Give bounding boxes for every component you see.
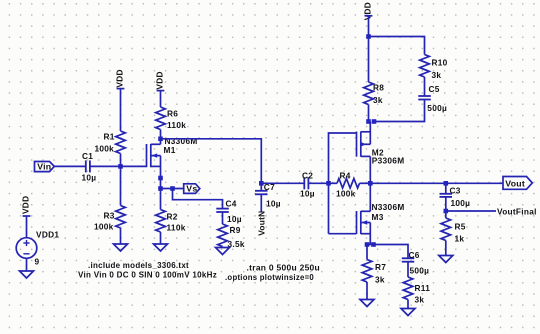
- ground at R9: [216, 248, 230, 255]
- wire node C to C4: [173, 189, 223, 209]
- svg-text:10µ: 10µ: [300, 188, 315, 198]
- resistor R3: [94, 206, 125, 232]
- ground at VDD1: [20, 271, 34, 278]
- svg-text:500µ: 500µ: [427, 103, 447, 113]
- svg-text:3k: 3k: [373, 95, 383, 105]
- node I junction: [444, 181, 449, 186]
- svg-text:R7: R7: [375, 262, 386, 272]
- node F junction: [368, 181, 373, 186]
- wire node J to R5: [445, 211, 447, 218]
- wire node Vs to R2: [160, 189, 162, 210]
- wire M1 source to node Vs: [160, 178, 162, 189]
- power flag VDD top: [362, 2, 372, 20]
- resistor R2: [156, 210, 186, 233]
- ground at R5: [439, 256, 453, 263]
- wire node A to M1 gate: [121, 165, 147, 167]
- M1 source pin dot: [158, 176, 163, 181]
- svg-text:Vin: Vin: [37, 162, 51, 172]
- wire VDD to node G: [368, 16, 370, 37]
- wire C1 to node A: [90, 165, 121, 167]
- svg-text:R3: R3: [104, 211, 115, 221]
- wire R9 to ground: [222, 247, 224, 248]
- capacitor C5: [418, 84, 447, 113]
- wire C3 to node J: [445, 197, 447, 211]
- svg-text:VoutN: VoutN: [257, 211, 267, 236]
- svg-text:100µ: 100µ: [451, 198, 471, 208]
- capacitor C1: [82, 151, 97, 182]
- wire C5 to M2 source node: [374, 100, 425, 122]
- node H junction pair: [366, 119, 376, 124]
- svg-text:C1: C1: [82, 151, 93, 161]
- svg-text:1k: 1k: [455, 233, 465, 243]
- wire R6 to drain node B: [160, 130, 162, 139]
- ground at R3: [114, 244, 128, 251]
- capacitor C7: [255, 182, 281, 209]
- svg-text:500µ: 500µ: [410, 265, 430, 275]
- resistor R5: [441, 218, 466, 243]
- wire node A to R3: [120, 166, 122, 205]
- wire node G to R8: [368, 37, 370, 83]
- svg-text:R4: R4: [340, 170, 351, 180]
- resistor R10: [420, 55, 448, 81]
- resistor R9: [218, 224, 245, 249]
- svg-text:3k: 3k: [415, 294, 425, 304]
- gate bus wire: [329, 133, 357, 234]
- wire C7 to VoutN label: [260, 194, 262, 211]
- svg-text:R6: R6: [167, 108, 178, 118]
- svg-text:R5: R5: [455, 221, 466, 231]
- svg-text:M1: M1: [164, 145, 176, 155]
- wire R5 to ground: [445, 241, 447, 256]
- svg-text:3k: 3k: [375, 275, 385, 285]
- svg-text:.options plotwinsize=0: .options plotwinsize=0: [225, 272, 314, 282]
- svg-text:Vout: Vout: [505, 178, 525, 188]
- node B junction: [158, 137, 163, 142]
- flag Vin: [35, 162, 55, 172]
- gate bus wire lower: [329, 233, 357, 235]
- svg-text:3k: 3k: [432, 70, 442, 80]
- svg-text:C4: C4: [226, 199, 237, 209]
- node K junction pair: [365, 242, 376, 247]
- wire VDD to R6: [160, 91, 162, 107]
- svg-text:Vs: Vs: [186, 184, 197, 194]
- svg-text:10µ: 10µ: [82, 173, 97, 183]
- resistor R7: [362, 260, 386, 285]
- transistor M3 N3306M: [357, 183, 405, 244]
- ground at R7: [360, 300, 374, 307]
- wire node K to C6: [367, 245, 408, 259]
- wire node I to flag Vout: [446, 182, 503, 184]
- capacitor C2: [300, 170, 315, 198]
- wire R10 to C5: [424, 77, 426, 96]
- svg-text:110k: 110k: [167, 223, 186, 233]
- wire R7 to ground: [366, 282, 368, 300]
- capacitor C3: [440, 183, 471, 208]
- wire R2 to ground: [160, 232, 162, 244]
- wire node G to R10: [369, 37, 425, 55]
- svg-text:100k: 100k: [94, 222, 114, 232]
- power flag VDD at VDD1: [20, 196, 30, 216]
- svg-text:R11: R11: [415, 283, 431, 293]
- power flag VDD at R6: [154, 71, 164, 90]
- wire node F to C3: [370, 182, 446, 184]
- wire Vin to C1: [54, 165, 86, 167]
- wire C6 to R11: [407, 262, 409, 277]
- wire R3 to ground: [120, 228, 122, 244]
- resistor R11: [403, 277, 430, 304]
- svg-text:R10: R10: [432, 58, 448, 68]
- transistor M1 N3306M: [147, 136, 198, 178]
- flag Vs: [184, 184, 200, 194]
- node C junction: [170, 186, 175, 191]
- svg-text:C3: C3: [450, 186, 461, 196]
- svg-text:110k: 110k: [167, 120, 186, 130]
- transistor M2 P3306M: [357, 122, 405, 184]
- svg-text:10µ: 10µ: [227, 214, 242, 224]
- flag Vout: [503, 177, 532, 190]
- node D junction: [259, 181, 264, 186]
- ground at R2: [154, 244, 168, 251]
- wire C4 to R9: [222, 212, 224, 224]
- svg-text:VoutFinal: VoutFinal: [497, 207, 537, 217]
- svg-text:P3306M: P3306M: [372, 156, 405, 166]
- svg-text:9: 9: [35, 257, 40, 267]
- svg-text:R8: R8: [373, 83, 384, 93]
- svg-text:R1: R1: [104, 132, 115, 142]
- wire node D to C2: [261, 182, 304, 184]
- node E junction: [326, 181, 331, 186]
- wire R1 to node A: [120, 154, 122, 167]
- svg-text:C2: C2: [302, 170, 313, 180]
- capacitor C6: [402, 250, 429, 275]
- wire node J to VoutFinal label: [446, 210, 496, 212]
- svg-text:C5: C5: [429, 84, 440, 94]
- svg-text:VDD: VDD: [114, 69, 124, 87]
- ground at R11: [401, 309, 415, 316]
- svg-text:.tran 0 500u 250u: .tran 0 500u 250u: [247, 263, 321, 273]
- node J junction: [444, 209, 449, 214]
- node A junction: [118, 164, 123, 169]
- wire node K to R7: [366, 245, 368, 260]
- svg-text:R9: R9: [230, 225, 241, 235]
- svg-text:Vin Vin 0 DC 0 SIN 0 100mV 10k: Vin Vin 0 DC 0 SIN 0 100mV 10kHz: [78, 270, 217, 280]
- svg-text:VDD: VDD: [20, 196, 30, 214]
- wire R8 to M2 source node: [368, 105, 370, 122]
- resistor R4: [329, 170, 371, 198]
- svg-text:R2: R2: [167, 212, 178, 222]
- power flag VDD at R1: [114, 69, 124, 88]
- svg-text:100k: 100k: [95, 144, 115, 154]
- capacitor C4: [216, 199, 242, 224]
- svg-text:VDD1: VDD1: [36, 230, 59, 240]
- svg-text:.include models_3306.txt: .include models_3306.txt: [88, 260, 189, 270]
- voltage source VDD1: [16, 230, 59, 267]
- svg-text:M3: M3: [372, 212, 384, 222]
- resistor R6: [156, 107, 187, 130]
- resistor R8: [364, 82, 385, 105]
- svg-text:VDD: VDD: [362, 2, 372, 20]
- svg-text:VDD: VDD: [154, 71, 164, 89]
- wire C2 to gate node E: [308, 182, 328, 184]
- wire node Vs to flag Vs: [161, 188, 184, 190]
- wire VDD flag to VDD1: [26, 216, 28, 238]
- wire VDD to R1: [120, 89, 122, 131]
- wire VDD1 to ground: [26, 258, 28, 271]
- svg-text:C6: C6: [409, 250, 420, 260]
- svg-text:N3306M: N3306M: [372, 202, 405, 212]
- node Vs junction: [158, 186, 163, 191]
- wire R11 to ground: [407, 300, 409, 309]
- svg-text:100k: 100k: [336, 188, 356, 198]
- svg-text:10µ: 10µ: [266, 198, 281, 208]
- node G junction: [366, 34, 371, 39]
- wire node B to C7 node: [161, 139, 262, 184]
- resistor R1: [95, 131, 126, 154]
